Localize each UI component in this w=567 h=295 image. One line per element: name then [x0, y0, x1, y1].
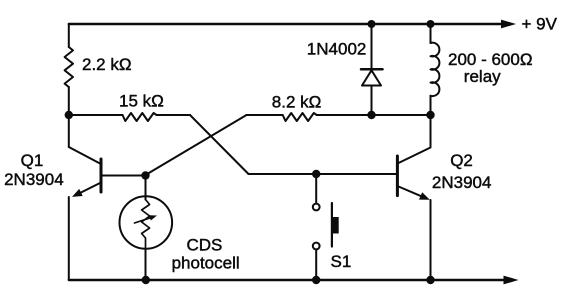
switch S1 pushbutton [313, 174, 339, 280]
svg-text:photocell: photocell [172, 254, 240, 273]
svg-text:CDS: CDS [187, 235, 223, 254]
Q2 emitter vertical [430, 200, 432, 280]
S1 actuator bar [331, 203, 333, 247]
svg-text:1N4002: 1N4002 [307, 40, 367, 59]
wire S1 bottom [315, 249, 317, 280]
S1 button cap [332, 217, 339, 234]
Q1 collector wire [69, 147, 100, 164]
wire 15k right segment [157, 114, 191, 116]
node junction 2.2k / 15k / Q1 collector [65, 111, 73, 119]
wire left vertical lower [68, 197, 70, 280]
svg-text:Q2: Q2 [450, 151, 473, 170]
wire relay top [430, 24, 432, 43]
svg-text:relay: relay [464, 67, 501, 86]
svg-text:S1: S1 [331, 252, 352, 271]
wire S1 top [315, 174, 317, 204]
Q2 emitter wire with arrow [399, 187, 421, 196]
diode cathode bar [361, 68, 383, 71]
Q1 base wire [101, 175, 146, 177]
resistor R1 2.2 kOhm [65, 47, 73, 87]
wire bottom rail [69, 279, 505, 281]
node top of diode column [368, 20, 376, 28]
S1 top contact circle [313, 204, 320, 211]
wire diode bottom [371, 86, 373, 116]
svg-text:Q1: Q1 [21, 151, 44, 170]
CDS photocell PC1 [120, 196, 173, 249]
Q1 base bar [100, 159, 103, 192]
wire 15k left segment [69, 114, 123, 116]
node bottom S1 [312, 276, 320, 284]
relay coil K1 [431, 24, 440, 115]
Q1 emitter wire with arrow [81, 183, 101, 193]
arrowhead top +9V [501, 20, 516, 29]
node junction Q1 base / photocell / cross wire [141, 171, 149, 179]
node bottom Q2 emitter [426, 276, 434, 284]
svg-text:+ 9V: + 9V [522, 14, 558, 33]
wire relay bottom [430, 96, 432, 115]
svg-text:2N3904: 2N3904 [4, 170, 64, 189]
resistor R2 15 kOhm [123, 113, 157, 121]
wire top rail +9V [69, 23, 503, 25]
transistor Q1 2N3904 [69, 147, 146, 197]
transistor Q2 2N3904 [397, 115, 430, 280]
photocell resistor squiggle [142, 197, 150, 250]
node junction S1 / Q2 base [312, 170, 320, 178]
node top of relay column [427, 20, 435, 28]
svg-text:15 kΩ: 15 kΩ [119, 92, 164, 111]
Q2 collector wire [399, 115, 431, 163]
diode triangle [362, 70, 381, 85]
wire cross-couple 15k to Q2 base (diagonal) [190, 115, 249, 174]
diode D1 1N4002 [361, 24, 383, 115]
node junction diode bottom / 8.2k [367, 111, 375, 119]
wire diode top [371, 24, 373, 69]
node bottom photocell [142, 276, 150, 284]
node junction relay bottom / Q2 collector [426, 111, 434, 119]
photocell circle [120, 196, 173, 249]
svg-text:2.2 kΩ: 2.2 kΩ [82, 55, 132, 74]
wire cross-couple 8.2k to Q1 base (diagonal) [146, 115, 247, 175]
Q2 base bar [396, 156, 399, 196]
resistor R3 8.2 kOhm [283, 113, 317, 121]
photocell arrow [135, 218, 150, 223]
svg-text:8.2 kΩ: 8.2 kΩ [272, 93, 322, 112]
wire left vertical upper [68, 24, 70, 147]
arrowhead bottom rail [504, 276, 519, 285]
wire photocell bottom [145, 249, 147, 280]
S1 bottom contact circle [313, 243, 320, 250]
inductor coil loops [431, 43, 440, 96]
svg-text:2N3904: 2N3904 [432, 173, 492, 192]
wire Q2 base from cross-couple [249, 173, 397, 175]
wire photocell top [145, 176, 147, 200]
wire 8.2k left segment [247, 114, 283, 116]
wire 8.2k right segment to relay bottom [317, 114, 431, 116]
